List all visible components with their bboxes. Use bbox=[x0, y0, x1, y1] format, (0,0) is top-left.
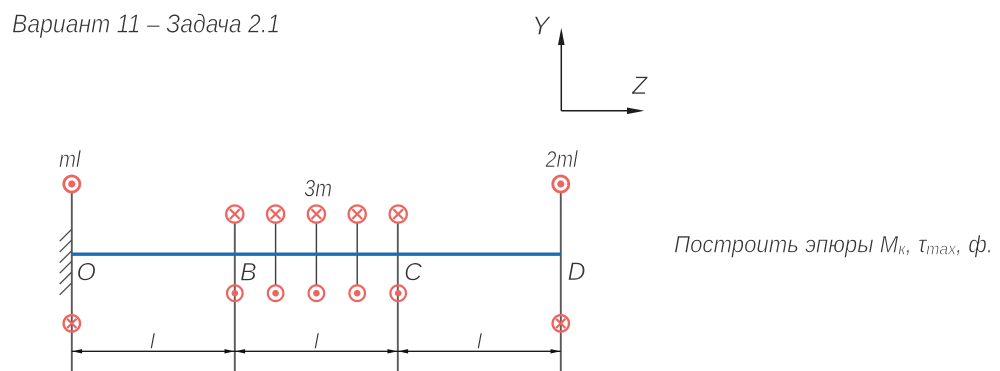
moment symbol: dot-circle at D top (2ml) bbox=[553, 176, 569, 192]
axis arrowhead Y bbox=[558, 28, 565, 45]
wire: moment column 2 bbox=[275, 223, 277, 285]
moment symbol: X-circle at O bottom bbox=[64, 315, 80, 331]
svg-text:C: C bbox=[404, 259, 423, 287]
svg-text:3m: 3m bbox=[304, 176, 332, 203]
svg-text:2ml: 2ml bbox=[545, 146, 579, 172]
distributed moment: bottom dot-circle row bbox=[227, 285, 406, 301]
svg-text:ml: ml bbox=[59, 146, 81, 172]
dimension arrowheads bbox=[72, 349, 561, 353]
svg-text:O: O bbox=[77, 259, 96, 287]
wire: vertical construction line O bbox=[71, 193, 73, 371]
dimension line O-D bbox=[72, 350, 561, 352]
moment symbol: X-circle at D bottom bbox=[553, 315, 569, 331]
wire: moment column 3 bbox=[315, 223, 317, 285]
wall hatching at O bbox=[60, 229, 72, 295]
wire: moment column 4 bbox=[356, 223, 358, 285]
wire: vertical construction line B bbox=[234, 223, 236, 371]
svg-text:Z: Z bbox=[631, 72, 648, 100]
wire: vertical construction line C bbox=[397, 223, 399, 371]
wire: vertical construction line D bbox=[560, 193, 562, 371]
svg-text:B: B bbox=[240, 259, 257, 287]
moment symbol: dot-circle at O top (ml) bbox=[64, 176, 80, 192]
axis Y (vertical arrow) bbox=[561, 42, 630, 111]
svg-text:Вариант 11 – Задача 2.1: Вариант 11 – Задача 2.1 bbox=[12, 9, 280, 39]
distributed moment: top X-circle row bbox=[226, 206, 407, 223]
shaft (blue beam) bbox=[72, 253, 561, 256]
axis arrowhead Z bbox=[627, 108, 644, 115]
svg-text:D: D bbox=[568, 258, 586, 286]
svg-text:Y: Y bbox=[532, 11, 551, 41]
